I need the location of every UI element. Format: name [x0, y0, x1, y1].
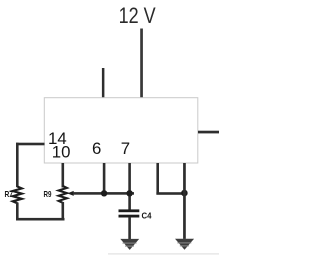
- junction node pin6/wiper: [101, 190, 107, 196]
- wire 12V supply vertical: [140, 29, 143, 99]
- svg-text:6: 6: [92, 139, 101, 158]
- wire output right: [198, 131, 219, 134]
- wire C4 to ground: [128, 217, 131, 239]
- wire pin7 vertical: [128, 163, 131, 210]
- resistor R9 (potentiometer): [59, 186, 67, 203]
- wire pin14 horizontal: [16, 143, 45, 146]
- ground (right): [175, 239, 194, 250]
- wire loop bottom horizontal: [16, 218, 65, 221]
- wire right vertical to ground: [183, 163, 186, 239]
- svg-text:12 V: 12 V: [119, 3, 156, 28]
- resistor R7: [13, 187, 22, 204]
- wire pin10 vertical to R9: [62, 163, 65, 188]
- svg-text:C4: C4: [142, 210, 152, 220]
- wire loop left vertical (top): [16, 143, 19, 188]
- junction node pin7/wiper: [126, 190, 132, 196]
- wire pin6 vertical: [103, 163, 106, 193]
- svg-text:10: 10: [52, 142, 71, 161]
- wire right-inner horizontal: [156, 192, 185, 195]
- junction node right: [181, 190, 188, 197]
- wiper arrow into R9: [67, 191, 73, 196]
- capacitor C4 top plate: [119, 209, 140, 212]
- svg-text:R7: R7: [5, 189, 14, 199]
- svg-text:7: 7: [121, 139, 130, 158]
- ground (below C4): [120, 239, 139, 250]
- faint border line bottom right: [108, 253, 219, 254]
- capacitor C4 bottom plate: [119, 215, 140, 218]
- wire loop left vertical (bottom): [16, 203, 19, 221]
- IC U1 body rectangle: [44, 98, 198, 163]
- wire top stub: [102, 68, 105, 98]
- wire right-inner vertical: [156, 163, 159, 195]
- wire wiper horizontal: [73, 192, 134, 195]
- svg-text:R9: R9: [44, 189, 52, 199]
- wire R9 bottom vertical: [62, 202, 65, 221]
